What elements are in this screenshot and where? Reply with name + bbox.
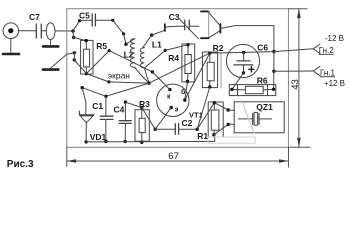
svg-text:Рис.3: Рис.3 <box>7 159 34 170</box>
terminal Гн.1 (+12 V) <box>313 66 345 88</box>
connector XW1 (antenna input) <box>3 23 19 53</box>
svg-text:б: б <box>181 88 186 96</box>
dimension 43 <box>289 9 311 148</box>
node (junction) <box>147 81 150 84</box>
wire <box>41 30 46 32</box>
svg-text:-12 В: -12 В <box>325 34 344 43</box>
svg-text:+12 В: +12 В <box>324 79 345 88</box>
wire <box>165 25 176 28</box>
wire <box>86 49 110 74</box>
resistor R4 <box>168 43 194 83</box>
feed-through capacitor <box>46 23 55 45</box>
svg-text:C2: C2 <box>182 118 193 128</box>
node <box>272 50 275 53</box>
leader line (light) <box>242 102 254 133</box>
partition slot <box>201 11 220 38</box>
wire <box>210 51 244 54</box>
node A <box>71 29 75 39</box>
transistor VT1 <box>157 84 203 119</box>
node <box>272 70 275 73</box>
svg-text:67: 67 <box>168 151 179 162</box>
terminal post <box>164 24 166 31</box>
resistor R3 <box>135 99 150 144</box>
wire <box>109 82 149 83</box>
wire <box>74 60 86 74</box>
wire <box>232 73 244 90</box>
svg-text:43: 43 <box>290 79 301 90</box>
wire <box>274 70 314 72</box>
wire <box>197 87 210 129</box>
inductor L2 <box>124 39 150 84</box>
svg-text:Гн.2: Гн.2 <box>319 46 335 55</box>
wire <box>113 20 126 44</box>
shield box (экран) <box>67 9 289 148</box>
wire <box>244 51 274 54</box>
capacitor C6 <box>226 43 268 78</box>
wire <box>142 108 155 130</box>
svg-text:к: к <box>167 93 171 100</box>
wire <box>152 72 170 90</box>
svg-text:C4: C4 <box>114 104 125 114</box>
wire <box>214 103 234 112</box>
wire <box>73 21 80 31</box>
svg-text:R5: R5 <box>96 41 107 51</box>
wire <box>86 74 110 84</box>
ground <box>43 54 67 69</box>
capacitor C4 <box>114 100 142 143</box>
resistor R1 <box>197 101 223 141</box>
inductor L1 <box>140 33 162 83</box>
resistor R5 <box>81 39 108 75</box>
wire <box>152 30 165 35</box>
wire <box>274 49 314 52</box>
svg-text:C1: C1 <box>92 101 103 111</box>
wire <box>197 103 214 130</box>
wire <box>214 123 234 135</box>
capacitor C5 <box>78 10 114 26</box>
capacitor C7 <box>29 12 41 38</box>
resistor R6 <box>229 76 275 96</box>
capacitor C2 <box>154 118 199 134</box>
ground <box>43 45 58 48</box>
wire <box>185 82 188 101</box>
wire <box>221 26 274 52</box>
wire <box>81 83 150 98</box>
terminal post <box>219 24 221 33</box>
svg-text:QZ1: QZ1 <box>256 102 273 112</box>
wire <box>109 51 152 72</box>
trimmer capacitor C3 <box>169 12 199 39</box>
terminal Гн.2 (-12 V) <box>313 34 344 55</box>
ghost outline <box>208 137 255 143</box>
capacitor C1 <box>92 96 113 143</box>
node <box>67 51 76 62</box>
resistor R2 <box>202 43 223 88</box>
wire <box>155 108 171 130</box>
wire <box>149 53 210 83</box>
svg-text:C5: C5 <box>79 10 90 20</box>
zener diode VD1 <box>80 88 107 144</box>
svg-text:L1: L1 <box>152 40 162 50</box>
wire <box>55 30 73 32</box>
svg-text:э: э <box>175 107 179 114</box>
svg-text:Гн.1: Гн.1 <box>320 68 336 77</box>
svg-text:C6: C6 <box>257 43 268 53</box>
svg-text:R4: R4 <box>168 53 179 63</box>
wire (ground bus) <box>86 140 215 143</box>
wire <box>273 71 275 89</box>
svg-text:R1: R1 <box>197 131 208 141</box>
svg-text:экран: экран <box>108 71 131 81</box>
quartz crystal QZ1 <box>234 102 284 133</box>
wire <box>185 53 210 100</box>
wire <box>74 37 87 40</box>
svg-text:C7: C7 <box>29 12 40 22</box>
svg-text:VD1: VD1 <box>90 132 107 142</box>
dimension 67 <box>67 147 289 167</box>
wire <box>145 45 188 68</box>
wire <box>273 52 275 72</box>
ground <box>3 53 19 56</box>
wire <box>19 30 36 32</box>
partition wall <box>220 53 222 88</box>
